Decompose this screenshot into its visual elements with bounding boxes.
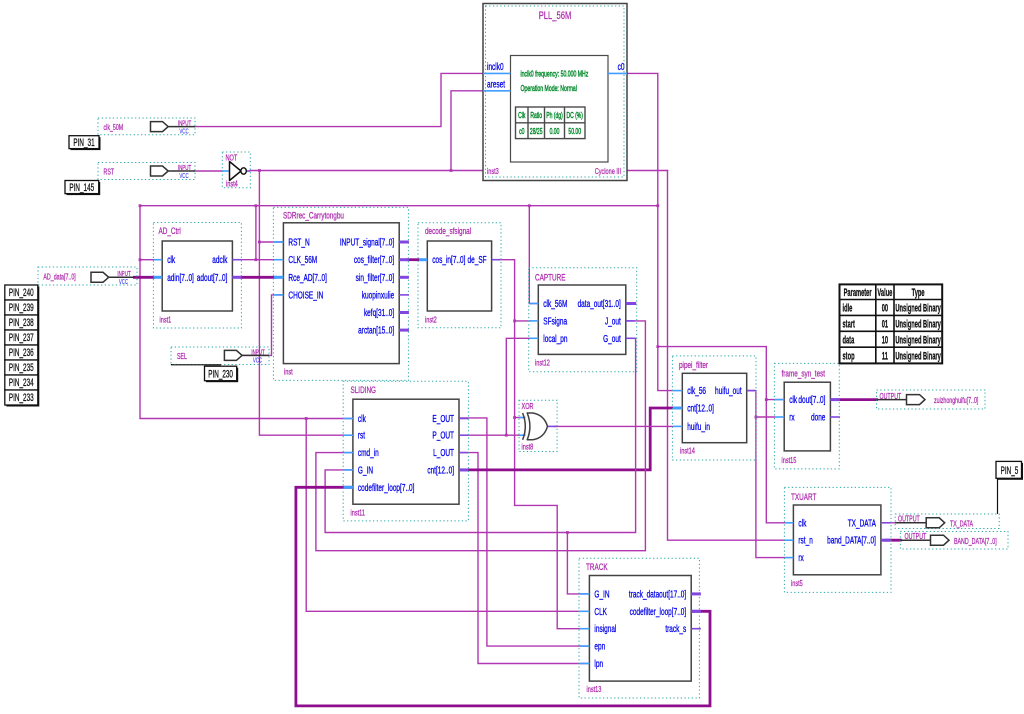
svg-text:NOT: NOT [226, 155, 238, 163]
svg-text:DC (%): DC (%) [566, 112, 582, 120]
svg-text:idle: idle [843, 302, 853, 314]
svg-text:PIN_235: PIN_235 [9, 361, 34, 373]
svg-text:AD_data[7..0]: AD_data[7..0] [43, 274, 75, 282]
pin assignment PIN_233 [5, 390, 40, 407]
svg-text:VCC: VCC [253, 356, 263, 364]
svg-text:00: 00 [882, 302, 889, 314]
net huifu_out to frame rx and TXUART rx [747, 391, 785, 558]
bus codefilter_loop from TRACK to SLIDING [296, 487, 710, 706]
block AD_Ctrl inst1 [153, 223, 241, 329]
svg-text:CLK_56M: CLK_56M [288, 254, 317, 266]
svg-text:CLK: CLK [594, 605, 607, 617]
svg-text:inst4: inst4 [226, 181, 238, 189]
net c0 clock distribution [139, 73, 785, 611]
svg-text:clk_56M: clk_56M [543, 297, 567, 309]
svg-text:inst14: inst14 [680, 448, 695, 456]
svg-text:SLIDING: SLIDING [351, 385, 377, 396]
XOR gate inst8 [519, 400, 557, 452]
svg-text:28/25: 28/25 [530, 128, 543, 136]
net XOR output to huifu_in [554, 425, 672, 427]
svg-text:huifu_out: huifu_out [715, 385, 742, 397]
svg-text:rst: rst [358, 429, 366, 441]
svg-text:huifu_in: huifu_in [687, 420, 710, 432]
svg-text:SFsigna: SFsigna [543, 315, 567, 327]
svg-text:data: data [843, 333, 855, 345]
svg-text:PIN_238: PIN_238 [9, 316, 34, 328]
svg-text:INPUT_signal[7..0]: INPUT_signal[7..0] [340, 236, 394, 248]
svg-text:CAPTURE: CAPTURE [535, 272, 565, 283]
net P_OUT to XOR input and local_pn [459, 338, 538, 436]
pin assignment PIN_145 [65, 181, 100, 196]
svg-text:P_OUT: P_OUT [432, 429, 454, 441]
svg-text:epn: epn [594, 640, 605, 652]
block SLIDING inst11 [343, 381, 468, 521]
svg-text:clk: clk [798, 517, 806, 529]
net de_SF to SFsigna, XOR input, insignal [492, 260, 590, 629]
input port RST [98, 163, 195, 181]
bus AD_data to adin [134, 276, 153, 279]
svg-text:sin_filter[7..0]: sin_filter[7..0] [356, 271, 395, 283]
svg-text:codefilter_loop[7..0]: codefilter_loop[7..0] [358, 481, 415, 493]
block TXUART inst5 [784, 487, 891, 592]
svg-text:Unsigned Binary: Unsigned Binary [895, 349, 941, 361]
svg-text:PIN_233: PIN_233 [9, 391, 34, 403]
svg-text:PIN_234: PIN_234 [9, 376, 34, 388]
block TRACK inst13 [579, 558, 701, 698]
svg-text:G_out: G_out [603, 332, 621, 344]
svg-text:inst12: inst12 [535, 360, 550, 368]
net SEL to CHOISE_IN [242, 295, 283, 356]
svg-text:codefilter_loop[7..0]: codefilter_loop[7..0] [630, 605, 687, 617]
pin assignment PIN_234 [5, 375, 40, 392]
block decode_sfsignal inst2 [418, 223, 501, 328]
svg-text:Unsigned Binary: Unsigned Binary [895, 318, 941, 330]
svg-text:inst3: inst3 [487, 168, 499, 176]
svg-text:Value: Value [877, 286, 892, 298]
svg-text:rx: rx [789, 411, 795, 423]
svg-text:adout[7..0]: adout[7..0] [197, 271, 228, 283]
svg-text:decode_sfsignal: decode_sfsignal [425, 226, 471, 237]
svg-text:clk_50M: clk_50M [104, 124, 124, 132]
svg-text:XOR: XOR [522, 403, 534, 411]
parameter table [840, 284, 943, 363]
svg-text:inst13: inst13 [587, 686, 602, 694]
net TX_DATA wire [886, 522, 895, 524]
svg-text:Parameter: Parameter [844, 286, 872, 298]
net E_OUT to epn [459, 418, 589, 646]
svg-text:cnt[12..0]: cnt[12..0] [687, 402, 714, 414]
svg-text:clk_56: clk_56 [687, 385, 706, 397]
svg-text:TX_DATA: TX_DATA [950, 520, 973, 528]
svg-text:Unsigned Binary: Unsigned Binary [895, 333, 941, 345]
svg-text:CHOISE_IN: CHOISE_IN [288, 289, 323, 301]
svg-text:cos_in[7..0]: cos_in[7..0] [432, 254, 465, 266]
svg-text:PIN_31: PIN_31 [73, 136, 94, 148]
svg-text:c0: c0 [519, 128, 525, 136]
svg-text:clk: clk [358, 412, 366, 424]
svg-text:BAND_DATA[7..0]: BAND_DATA[7..0] [954, 538, 997, 546]
pin assignment PIN_230 with leader line [172, 364, 239, 382]
pin assignment PIN_235 [5, 360, 40, 377]
svg-text:insignal: insignal [594, 623, 616, 635]
svg-text:SEL: SEL [177, 353, 187, 361]
svg-text:stop: stop [843, 349, 855, 361]
pin assignment PIN_237 [5, 330, 40, 347]
svg-text:rx: rx [798, 552, 804, 564]
svg-text:clk: clk [167, 254, 175, 266]
svg-text:start: start [843, 318, 855, 330]
svg-text:Ratio: Ratio [530, 112, 542, 120]
pin assignment PIN_239 [5, 300, 40, 317]
svg-text:cnt[12..0]: cnt[12..0] [427, 464, 454, 476]
svg-text:inst1: inst1 [160, 317, 172, 325]
svg-text:Clk: Clk [518, 112, 526, 120]
pin assignment PIN_31 [69, 136, 101, 150]
svg-text:L_OUT: L_OUT [433, 447, 454, 459]
net clk_50M wire [195, 73, 483, 126]
svg-text:PIN_145: PIN_145 [69, 181, 94, 193]
svg-text:PIN_239: PIN_239 [9, 301, 34, 313]
svg-text:VCC: VCC [119, 278, 129, 286]
input port SEL [171, 347, 269, 365]
svg-text:PIN_230: PIN_230 [208, 368, 233, 380]
block CAPTURE inst12 [529, 268, 637, 372]
svg-text:G_IN: G_IN [358, 464, 373, 476]
svg-text:SDRrec_Carrytongbu: SDRrec_Carrytongbu [283, 210, 344, 221]
svg-text:rst_n: rst_n [798, 534, 813, 546]
net J_out to cmd_in [316, 321, 646, 551]
svg-text:Unsigned Binary: Unsigned Binary [895, 302, 941, 314]
net NOT output / reset distribution [250, 91, 784, 540]
net RST wire to NOT input [195, 170, 222, 172]
bus band_DATA wire [886, 539, 900, 542]
block pipei_filter inst14 [672, 356, 756, 460]
svg-text:track_dataout[17..0]: track_dataout[17..0] [629, 588, 686, 600]
output port BAND_DATA[7..0] [900, 532, 1008, 550]
svg-text:data_out[31..0]: data_out[31..0] [578, 297, 621, 309]
svg-text:cos_filter[7..0]: cos_filter[7..0] [354, 254, 394, 266]
svg-text:zuizhonghuifu[7..0]: zuizhonghuifu[7..0] [934, 397, 978, 405]
block SDRrec_Carrytongbu inst [273, 207, 409, 380]
svg-text:G_IN: G_IN [594, 588, 609, 600]
svg-text:arctan[15..0]: arctan[15..0] [358, 324, 394, 336]
svg-text:de_SF: de_SF [468, 254, 487, 266]
svg-text:RST_N: RST_N [288, 236, 309, 248]
svg-text:PIN_236: PIN_236 [9, 346, 34, 358]
svg-text:inst11: inst11 [351, 510, 366, 518]
pin assignment PIN_238 [5, 315, 40, 332]
svg-text:Type: Type [912, 286, 925, 298]
input port AD_data[7..0] [38, 267, 137, 287]
svg-text:50.00: 50.00 [568, 128, 581, 136]
PLL_56M inst3 [483, 4, 627, 181]
bus dout[7..0] to output symbol [839, 398, 876, 401]
pin assignment PIN_5 with leader line [996, 461, 1023, 514]
bus adout to Rce_AD [241, 276, 275, 279]
bus cnt[12..0] to pipei_filter [459, 408, 672, 470]
svg-text:c0: c0 [618, 61, 625, 73]
svg-text:TX_DATA: TX_DATA [848, 517, 876, 529]
svg-text:pipei_filter: pipei_filter [679, 360, 708, 371]
output port TX_DATA [895, 514, 999, 529]
svg-text:band_DATA[7..0]: band_DATA[7..0] [827, 534, 876, 546]
svg-text:TRACK: TRACK [586, 562, 608, 573]
net L_OUT to lpn [459, 453, 589, 664]
svg-text:E_OUT: E_OUT [432, 412, 454, 424]
pin areset [483, 90, 511, 92]
pin assignment PIN_236 [5, 345, 40, 362]
svg-text:VCC: VCC [179, 172, 189, 180]
input port clk_50M [98, 118, 195, 136]
svg-text:inst5: inst5 [791, 580, 803, 588]
pin inclk0 [483, 72, 511, 74]
pin c0 [608, 72, 627, 74]
bus cos_filter to cos_in [408, 258, 420, 261]
svg-text:TXUART: TXUART [791, 492, 816, 503]
NOT gate inst4 [222, 152, 250, 189]
svg-text:done: done [811, 411, 826, 423]
block frame_syn_test inst15 [774, 363, 840, 469]
svg-text:AD_Ctrl: AD_Ctrl [159, 226, 181, 237]
svg-text:inst8: inst8 [522, 444, 534, 452]
svg-text:areset: areset [487, 78, 505, 90]
svg-text:PLL_56M: PLL_56M [539, 10, 572, 23]
svg-text:inclk0: inclk0 [487, 61, 504, 73]
svg-text:adclk: adclk [212, 254, 228, 266]
svg-text:PIN_240: PIN_240 [9, 286, 34, 298]
net G_out to SLIDING G_IN and TRACK G_IN [325, 338, 635, 594]
svg-text:J_out: J_out [605, 315, 621, 327]
svg-text:Ph (dg): Ph (dg) [546, 112, 563, 120]
svg-text:01: 01 [882, 318, 889, 330]
pin assignment PIN_240 [5, 285, 40, 302]
svg-text:lpn: lpn [594, 657, 603, 669]
svg-text:Cyclone III: Cyclone III [595, 168, 621, 176]
svg-text:inst: inst [284, 369, 293, 377]
svg-text:Operation Mode: Normal: Operation Mode: Normal [521, 84, 578, 94]
svg-text:clk: clk [789, 394, 797, 406]
svg-text:11: 11 [882, 349, 888, 361]
svg-text:RST: RST [104, 169, 115, 177]
svg-text:cmd_in: cmd_in [358, 447, 379, 459]
svg-text:Rce_AD[7..0]: Rce_AD[7..0] [288, 271, 327, 283]
svg-text:kuopinxulie: kuopinxulie [362, 289, 395, 301]
svg-text:inclk0 frequency: 50.000 MHz: inclk0 frequency: 50.000 MHz [521, 69, 589, 79]
svg-text:adin[7..0]: adin[7..0] [167, 271, 194, 283]
svg-text:inst15: inst15 [782, 457, 797, 465]
svg-text:local_pn: local_pn [543, 332, 567, 344]
svg-text:kefq[31..0]: kefq[31..0] [364, 306, 394, 318]
svg-text:0.00: 0.00 [550, 128, 560, 136]
svg-text:track_s: track_s [665, 623, 686, 635]
svg-text:frame_syn_test: frame_syn_test [782, 368, 826, 379]
svg-text:10: 10 [882, 333, 889, 345]
svg-text:inst2: inst2 [425, 317, 437, 325]
svg-text:PIN_237: PIN_237 [9, 331, 34, 343]
output port zuizhonghuifu[7..0] [877, 390, 986, 409]
svg-text:PIN_5: PIN_5 [1001, 464, 1019, 476]
svg-text:dout[7..0]: dout[7..0] [798, 394, 825, 406]
svg-text:VCC: VCC [179, 127, 189, 135]
